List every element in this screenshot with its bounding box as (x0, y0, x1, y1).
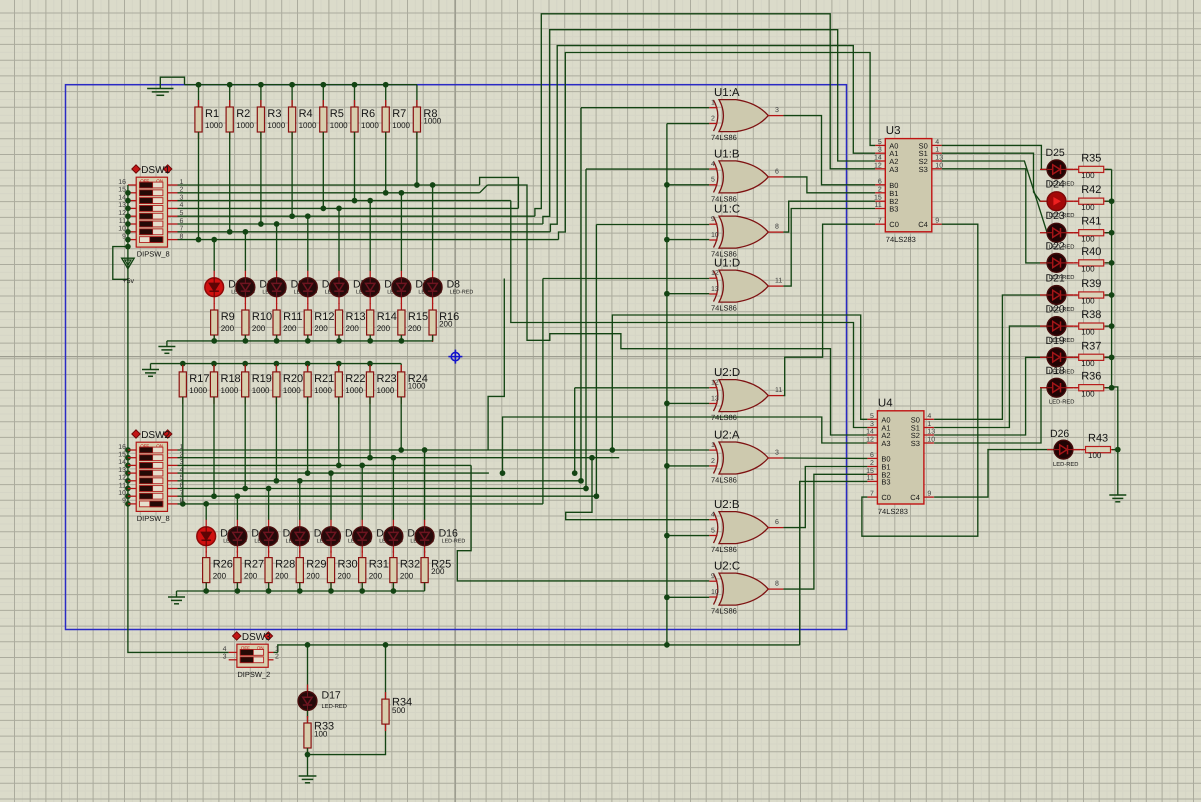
junction row4 feed A3 (500, 470, 506, 476)
wire D14 cathode (361, 552, 363, 554)
svg-text:11: 11 (867, 475, 874, 482)
junction rail DSW2 pin (125, 478, 131, 484)
svg-text:13: 13 (711, 395, 719, 402)
wire R21 bottom lead (307, 397, 309, 473)
wire R8 top lead (416, 85, 418, 107)
junction D5 row (336, 206, 342, 212)
svg-text:1: 1 (927, 421, 931, 428)
svg-text:5: 5 (870, 413, 874, 420)
svg-text:3: 3 (878, 147, 882, 154)
junction D4 row (305, 213, 311, 219)
wire D8 cathode (432, 303, 434, 305)
wire D11 anode (268, 489, 270, 521)
svg-text:6: 6 (775, 519, 779, 526)
svg-text:14: 14 (118, 194, 126, 201)
LED D14 (353, 520, 403, 553)
svg-text:16: 16 (118, 444, 126, 451)
svg-text:10: 10 (711, 589, 719, 596)
svg-text:5: 5 (711, 177, 715, 184)
junction control U2:D pin13 (664, 401, 670, 407)
svg-text:C4: C4 (918, 220, 928, 229)
LED D18 (1040, 365, 1074, 406)
svg-text:200: 200 (252, 324, 266, 333)
DSW1 left pin stubs (128, 184, 136, 186)
junction R1 row (196, 237, 202, 243)
wire U1:C out to U3 B2 (783, 201, 875, 232)
junction R19 row (242, 486, 248, 492)
wire row4 to U4 A3 (503, 417, 868, 473)
junction D8 row (430, 182, 436, 188)
wire R22 top lead (338, 364, 340, 372)
wire U2:D pin13 lead (667, 402, 709, 404)
wire D15 anode (392, 458, 394, 520)
svg-text:R10: R10 (252, 311, 272, 323)
wire R17-R24 top bus (151, 363, 402, 365)
resistor R27 (234, 551, 264, 590)
LED D23 (1040, 210, 1074, 251)
svg-text:R31: R31 (369, 559, 389, 571)
wire U1:A pin1 lead (581, 107, 709, 109)
svg-text:R12: R12 (314, 311, 334, 323)
svg-text:S3: S3 (919, 165, 928, 174)
svg-text:D21: D21 (1046, 273, 1065, 285)
junction bus R43 (1115, 447, 1121, 453)
svg-text:R6: R6 (361, 108, 375, 120)
ground G1 (top-left) (147, 89, 173, 96)
svg-text:2: 2 (711, 115, 715, 122)
svg-text:16: 16 (118, 179, 126, 186)
junction row4 feed (572, 470, 578, 476)
xor gate U2:C (74LS86) (709, 561, 783, 616)
junction control U2:C pin10 (664, 594, 670, 600)
wire R19 top lead (244, 364, 246, 372)
junction R21 row (305, 470, 311, 476)
wire D12 anode (299, 481, 301, 520)
svg-text:11: 11 (775, 278, 782, 285)
svg-text:100: 100 (1081, 234, 1095, 243)
svg-text:200: 200 (431, 567, 445, 576)
wire bundle L2 row6 to U3 A2 (543, 30, 875, 224)
svg-text:2: 2 (275, 654, 279, 661)
wire control vertical (666, 124, 668, 645)
svg-text:6: 6 (870, 452, 874, 459)
wire DSW2 row8 (178, 503, 543, 505)
wire R18 bottom lead (213, 397, 215, 496)
wire DSW1 row6 (178, 223, 543, 225)
wire U2:D out to U3 C0 (783, 224, 875, 395)
wire bundle L1 row5 to U3 A3 (535, 14, 875, 216)
wire R3 top lead (260, 85, 262, 107)
wire row3 to U2:C pin9 (457, 465, 709, 581)
junction D16 row (422, 447, 428, 453)
svg-text:9: 9 (927, 491, 931, 498)
junction rail DSW2 pin (125, 493, 131, 499)
wire D7 cathode (400, 303, 402, 305)
wire D3 anode (276, 224, 278, 271)
wire R3 bottom lead to row (260, 132, 262, 224)
junction row6 feed (583, 486, 589, 492)
junction R18 row (211, 493, 217, 499)
wire +5v rail (128, 185, 229, 652)
junction bus D23 row (1109, 230, 1115, 236)
svg-text:4: 4 (711, 512, 715, 519)
junction R6 row (352, 198, 358, 204)
svg-text:D8: D8 (447, 278, 461, 290)
wire DSW1 row8 (178, 239, 559, 241)
wire bus to ground G2 (166, 341, 168, 346)
resistor R30 (327, 551, 357, 590)
wire D10 anode (236, 496, 238, 520)
junction R2 row (227, 229, 233, 235)
junction D10 row (235, 493, 241, 499)
junction R18 bus (211, 361, 217, 367)
resistor R16 (429, 303, 459, 342)
junction rail DSW1 pin (125, 206, 131, 212)
wire row1 riser bridge (480, 177, 519, 208)
svg-text:R2: R2 (236, 108, 250, 120)
wire U4 S0 to D21 (934, 295, 1047, 419)
wire row7 to U1:C pin9 (595, 225, 597, 497)
svg-text:1000: 1000 (408, 381, 426, 390)
resistor R41 (1074, 216, 1108, 244)
junction R29 bus (297, 588, 303, 594)
resistor R13 (335, 303, 365, 342)
resistor R1 (195, 100, 223, 139)
junction R12 bus (305, 338, 311, 344)
svg-text:D20: D20 (1046, 304, 1065, 316)
svg-text:11: 11 (119, 482, 126, 489)
wire D14 anode (361, 465, 363, 520)
svg-text:R13: R13 (346, 311, 366, 323)
svg-text:R14: R14 (377, 311, 397, 323)
svg-text:10: 10 (118, 490, 126, 497)
wire R43 to bus (1112, 449, 1118, 451)
svg-text:74LS86: 74LS86 (711, 133, 737, 142)
wire R25 bottom (424, 583, 426, 591)
svg-text:C4: C4 (910, 493, 920, 502)
svg-text:9: 9 (711, 216, 715, 223)
wire DSW2 row3 (178, 464, 472, 466)
wire D13 cathode (330, 552, 332, 554)
wire R8 bottom lead to row (416, 132, 418, 185)
junction D7 row (399, 190, 405, 196)
wire R26-R25 ground bus (177, 590, 425, 592)
svg-text:R18: R18 (221, 373, 241, 385)
svg-text:R40: R40 (1081, 246, 1101, 258)
wire U2:C out to U4 B2 (783, 474, 867, 589)
svg-text:2: 2 (711, 458, 715, 465)
resistor R2 (226, 100, 254, 139)
xor gate U2:B (74LS86) (709, 499, 783, 554)
svg-text:R7: R7 (392, 108, 406, 120)
LED D15 (384, 520, 434, 553)
wire R4 top lead (291, 85, 293, 107)
wire D16 cathode (424, 552, 426, 554)
wire R2 bottom lead to row (229, 132, 231, 232)
resistor R20 (273, 365, 303, 404)
junction bus D19 row (1109, 354, 1115, 360)
wire R6 top lead (354, 85, 356, 107)
wire bus to ground G4 (176, 591, 178, 597)
wire D5 cathode (338, 303, 340, 305)
svg-text:+5v: +5v (123, 278, 135, 285)
junction R11 bus (274, 338, 280, 344)
junction rail DSW2 pin (125, 463, 131, 469)
junction R19 bus (242, 361, 248, 367)
svg-text:DIPSW_8: DIPSW_8 (137, 514, 170, 523)
wire R24 bottom lead (400, 397, 402, 450)
wire D4 cathode (307, 303, 309, 305)
wire R26 bottom (205, 583, 207, 591)
svg-text:500: 500 (392, 706, 406, 715)
svg-text:LED-RED: LED-RED (1053, 462, 1078, 468)
resistor R24 (398, 365, 428, 404)
wire DSW1 row1 (178, 184, 480, 186)
wire R32 bottom (392, 583, 394, 591)
svg-text:3: 3 (775, 107, 779, 114)
svg-text:100: 100 (1081, 359, 1095, 368)
junction rail DSW1 pin (125, 237, 131, 243)
wire U2:A out to U4 B0 (783, 457, 867, 459)
ground G6 (299, 776, 317, 783)
wire row4 to U2:D pin12 (574, 388, 576, 473)
LED D24 (1040, 179, 1074, 220)
resistor R26 (203, 551, 233, 590)
LED D26 (1047, 428, 1080, 468)
LED D17 (298, 685, 347, 718)
wire U1:A pin2 lead (667, 123, 709, 125)
svg-text:200: 200 (439, 320, 453, 329)
LED D22 (1040, 240, 1074, 281)
junction control U1:C pin10 (664, 237, 670, 243)
svg-text:D25: D25 (1046, 147, 1065, 159)
wire DSW1 row3 (178, 200, 511, 202)
wire R40 to bus (1105, 262, 1111, 264)
svg-text:1000: 1000 (236, 121, 254, 130)
junction row7 feed (594, 493, 600, 499)
svg-text:R1: R1 (205, 108, 219, 120)
wire DSW1 row2 (178, 192, 480, 194)
resistor R21 (304, 365, 334, 404)
svg-text:DSW3: DSW3 (242, 632, 271, 643)
junction R23 row (367, 455, 373, 461)
wire D18 to R36 (1066, 387, 1077, 389)
svg-text:13: 13 (118, 202, 126, 209)
junction rail DSW2 pin (125, 470, 131, 476)
svg-text:14: 14 (118, 459, 126, 466)
svg-text:200: 200 (377, 324, 391, 333)
junction top bus R7 (383, 82, 389, 88)
svg-text:200: 200 (408, 324, 422, 333)
adder U4 (74LS283) (866, 397, 935, 516)
dip switch DSW2 (132, 430, 172, 523)
svg-text:12: 12 (118, 475, 126, 482)
wire U2:C pin10 lead (667, 596, 709, 598)
svg-text:74LS86: 74LS86 (711, 545, 737, 554)
svg-text:15: 15 (118, 187, 126, 194)
svg-text:10: 10 (118, 226, 126, 233)
svg-text:1000: 1000 (377, 386, 395, 395)
junction rail DSW2 pin (125, 447, 131, 453)
wire R9-R16 ground bus (167, 340, 433, 342)
junction control bottom (664, 642, 670, 648)
wire D11 cathode (268, 552, 270, 554)
wire U4 C4 to D26 (934, 450, 1054, 498)
svg-text:12: 12 (874, 162, 882, 169)
wire R10 bottom (244, 335, 246, 341)
junction control D17 (305, 642, 311, 648)
svg-text:1000: 1000 (392, 121, 410, 130)
junction D1 row (211, 237, 217, 243)
wire R17 bottom lead (182, 397, 184, 504)
wire R5 bottom lead to row (322, 132, 324, 208)
wire D1 cathode (213, 303, 215, 305)
wire DSW2 row4 (178, 472, 489, 474)
svg-text:R9: R9 (221, 311, 235, 323)
resistor R39 (1074, 278, 1108, 306)
svg-text:200: 200 (306, 572, 320, 581)
resistor R36 (1074, 371, 1108, 399)
wire R18 top lead (213, 364, 215, 372)
svg-text:LED-RED: LED-RED (1049, 400, 1074, 406)
svg-text:74LS283: 74LS283 (878, 507, 908, 516)
svg-text:13: 13 (118, 467, 126, 474)
junction R22 row (336, 463, 342, 469)
power terminal +5v (122, 258, 134, 268)
svg-text:R23: R23 (377, 373, 397, 385)
svg-text:D23: D23 (1046, 210, 1065, 222)
wire R15 bottom (400, 335, 402, 341)
wire DSW1 row7 (178, 231, 551, 233)
ground G5 (1109, 495, 1126, 502)
LED D12 (290, 520, 340, 553)
svg-text:6: 6 (878, 178, 882, 185)
svg-text:100: 100 (1088, 451, 1102, 460)
svg-text:R4: R4 (299, 108, 313, 120)
svg-text:D19: D19 (1046, 335, 1065, 347)
svg-text:1000: 1000 (189, 386, 207, 395)
svg-text:R35: R35 (1081, 152, 1101, 164)
LED D11 (259, 520, 309, 553)
LED D7 (392, 271, 442, 304)
svg-text:13: 13 (711, 286, 719, 293)
junction R27 bus (235, 588, 241, 594)
junction bus D24 row (1109, 198, 1115, 204)
svg-text:DIPSW_2: DIPSW_2 (237, 670, 270, 679)
svg-text:1: 1 (711, 100, 715, 107)
junction R33 R34 ground (305, 752, 311, 758)
svg-text:100: 100 (1081, 297, 1095, 306)
wire D26 to R43 (1073, 449, 1084, 451)
DSW1 right pin stubs (168, 184, 178, 186)
junction R21 bus (305, 361, 311, 367)
svg-text:1000: 1000 (283, 386, 301, 395)
wire R22 bottom lead (338, 397, 340, 466)
wire row2 to U4 A2 (487, 185, 867, 435)
svg-text:200: 200 (275, 572, 289, 581)
junction D12 row (297, 478, 303, 484)
wire row8 to U1:D pin12 (542, 279, 544, 504)
junction R24 row (398, 447, 404, 453)
LED D13 (322, 520, 372, 553)
wire R29 bottom (299, 583, 301, 591)
svg-text:3: 3 (223, 654, 227, 661)
wire D24 to R42 (1066, 200, 1077, 202)
wire D19 to R37 (1066, 356, 1077, 358)
junction D14 row (359, 463, 365, 469)
DSW3 right pin stubs (268, 651, 273, 653)
resistor R9 (211, 303, 235, 342)
svg-text:10: 10 (711, 232, 719, 239)
wire R19 bottom lead (244, 397, 246, 489)
junction D11 row (266, 486, 272, 492)
wire R20 top lead (275, 364, 277, 372)
svg-text:R20: R20 (283, 373, 303, 385)
svg-text:8: 8 (775, 581, 779, 588)
wire D21 to R39 (1066, 294, 1077, 296)
svg-text:U1:D: U1:D (714, 258, 740, 270)
xor gate U2:A (74LS86) (709, 430, 783, 485)
junction bus D18 row (1109, 385, 1115, 391)
junction top bus R4 (289, 82, 295, 88)
svg-text:R32: R32 (400, 559, 420, 571)
resistor R7 (382, 100, 410, 139)
wire R16 bottom (432, 335, 434, 341)
wire D20 to R38 (1066, 325, 1077, 327)
wire D2 cathode (244, 303, 246, 305)
resistor R38 (1074, 309, 1108, 337)
wire row6 to U1:B pin4 (585, 169, 587, 488)
junction R17 bus (180, 361, 186, 367)
resistor R32 (390, 551, 420, 590)
wire U1:D pin13 lead (667, 293, 709, 295)
svg-text:200: 200 (400, 572, 414, 581)
resistor R11 (273, 303, 302, 342)
wire row1 to U4 A0 (612, 315, 867, 450)
svg-text:S3: S3 (911, 439, 920, 448)
svg-text:5: 5 (878, 139, 882, 146)
resistor R23 (366, 365, 396, 404)
ground G3 (142, 370, 159, 377)
svg-text:U1:C: U1:C (714, 204, 740, 216)
svg-text:R41: R41 (1081, 216, 1101, 228)
svg-text:R15: R15 (408, 311, 428, 323)
svg-text:12: 12 (711, 380, 719, 387)
wire DSW1 row4 (178, 207, 519, 209)
wire control to U4 B3 (800, 481, 868, 645)
svg-text:U2:C: U2:C (714, 561, 740, 573)
svg-text:DIPSW_8: DIPSW_8 (137, 250, 170, 259)
svg-text:14: 14 (866, 429, 874, 436)
junction bus D22 row (1109, 260, 1115, 266)
svg-text:14: 14 (874, 155, 882, 162)
svg-text:R38: R38 (1081, 309, 1101, 321)
resistor R19 (242, 365, 272, 404)
wire row2 diagonal jog (480, 185, 488, 193)
wire U4 S2 to D19 (934, 357, 1047, 435)
LED D6 (361, 271, 411, 304)
LED D20 (1040, 304, 1074, 345)
svg-text:11: 11 (875, 202, 882, 209)
svg-text:LED-RED: LED-RED (322, 704, 347, 710)
wire U3 S0 to D25 (942, 145, 1047, 169)
junction D15 row (391, 455, 397, 461)
svg-text:R29: R29 (306, 559, 326, 571)
svg-text:8: 8 (775, 224, 779, 231)
wire R31 bottom (361, 583, 363, 591)
svg-text:4: 4 (927, 413, 931, 420)
junction top bus R6 (352, 82, 358, 88)
